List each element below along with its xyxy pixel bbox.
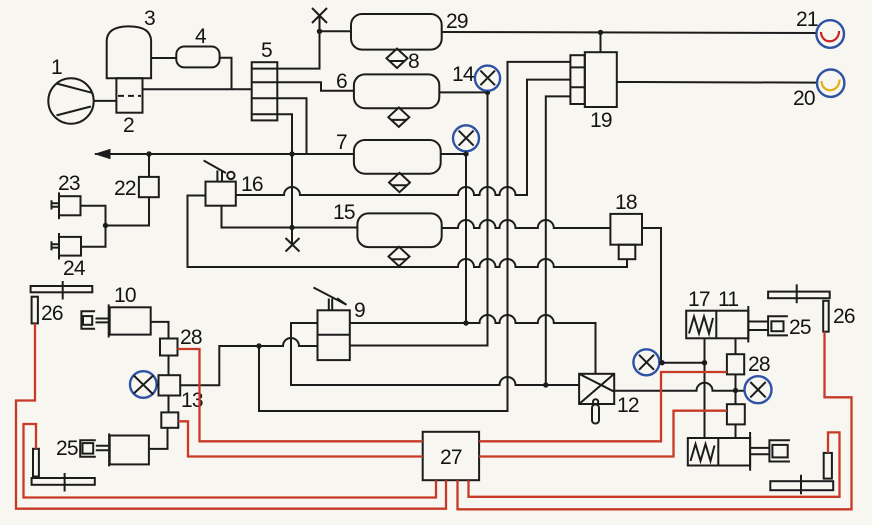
four-circuit protection valve 5 [252,62,278,120]
wire 28 left to valve 13 [168,356,170,376]
node chamber 17 feed [702,360,707,365]
brake pad right lower [824,453,832,479]
wheel cylinder front lower [80,440,96,457]
svg-text:27: 27 [440,446,462,469]
foot brake valve 9 [314,288,350,361]
wire lower 28 to lower chamber [735,424,737,438]
front brake chamber 10 [109,304,151,337]
node drain line on reservoir 15 wire [289,225,294,230]
svg-text:6: 6 [336,70,347,93]
wire reservoir 6 to test point 14 [439,91,487,93]
node circuit I [317,29,322,34]
svg-text:26: 26 [41,302,63,325]
closed drain port X [286,238,300,252]
wheel cylinder 25 right upper [768,316,788,335]
svg-text:1: 1 [51,56,62,79]
svg-text:3: 3 [144,7,155,30]
wire coupling 23 to node [81,206,106,247]
red pipe left upper pad to unit 27 port 2 [16,323,446,508]
svg-text:18: 18 [615,191,637,214]
svg-text:10: 10 [114,284,136,307]
wire block 18 right down to rear axle node [642,228,661,363]
wet line wire to reservoir 7 [95,153,354,155]
push rod front upper [96,319,109,323]
node under test point 14 [485,90,490,95]
node drain on wet line [289,151,294,156]
regeneration reservoir 4 [176,47,219,68]
push rod upper right [748,322,768,331]
wire port III of 19 down to valve 12 line [546,96,571,385]
drain valve 8 under reservoir 29 [387,49,408,68]
svg-text:2: 2 [123,114,134,137]
wire valve 28 to node [735,374,737,404]
solenoid valve 13 [159,375,181,395]
svg-text:28: 28 [180,326,202,349]
closed test port X above [312,8,327,23]
reservoir 6 [354,74,439,108]
push rod front lower [96,446,109,450]
wire front lower chamber to lower valve [149,428,168,449]
push rod lower right [750,448,769,454]
wire reservoir 29 to front indicator 21 [442,32,817,33]
node under reservoir 7 test point [463,151,468,156]
wire reservoir 4 to protection valve 5 [220,58,232,90]
wire dryer to regeneration reservoir 4 [151,57,176,59]
wheel cylinder front upper [81,311,95,329]
wire compressor to dryer [94,100,117,102]
drain valve under reservoir 7 [389,173,410,192]
reservoir 15 [357,213,441,247]
coupling head 24 [52,233,82,260]
svg-text:16: 16 [241,173,263,196]
wire reservoir 15 to block 18 with hops [442,220,611,228]
wire port I of 19 down and to valve 9 branch [259,62,570,411]
dryer lower body 2 [116,78,142,113]
svg-text:7: 7 [336,131,347,154]
test point at valve 13 [130,371,159,398]
brake pad 26 left upper [32,297,38,324]
wire valve 5 circuit IV drain line [277,114,292,244]
svg-text:15: 15 [333,201,355,224]
front brake chamber 25 lower [109,433,149,466]
relay valve 12 [579,374,614,424]
svg-text:22: 22 [114,177,136,200]
wire valve 16 bottom to reservoir 15 [222,206,358,228]
lower valve front axle [161,412,178,427]
drain valve under reservoir 6 [388,108,409,127]
wire node down into block 19 [600,32,602,52]
brake shoe bar left upper [31,281,93,300]
line valve 28 right lower [727,404,745,424]
wire valve 5 circuit I up to reservoir 29 [277,16,319,69]
wire chamber 10 to valve 28 left [151,322,169,339]
svg-text:20: 20 [793,87,815,110]
wire test point to chamber 17 feed [659,362,704,364]
line valve 28 right upper [727,354,744,374]
red pipe unit 27 port 4 to right lower pad [469,432,840,496]
brake signal valve 22 [139,177,159,197]
reservoir 29 [351,14,442,50]
relay block 19 ports [570,55,584,104]
wire chamber 11 down to valve 28 [735,338,737,354]
svg-text:12: 12 [617,394,639,417]
test point right of 28 [745,376,772,403]
wire node down to lower spring chamber [704,363,706,438]
node wet line to valve 22 [146,151,151,156]
wire reservoir 7 test node down to foot valve upper circuit [465,154,467,323]
line valve 28 left [160,339,178,356]
reservoir 7 [354,140,441,174]
node on valve 13 line [256,343,261,348]
wire foot valve 9 upper left wrap to relay valve 12 left with hop [291,323,579,385]
svg-text:5: 5 [261,39,272,62]
relay block 19 body [585,52,617,107]
wire valve 5 circuit II to reservoir 6 [277,82,354,91]
brake shoe bar right lower [770,475,833,495]
wire valve 13 to lower valve [168,396,170,413]
svg-text:19: 19 [590,109,612,132]
coupling head 23 [52,192,81,219]
wire node up to spring chamber 17 [704,338,706,362]
brake pad 26 right upper [823,301,829,332]
wire valve 16 right to relay block 19 port II with hops [236,80,571,195]
red pipe left lower pad to unit 27 port 1 [24,424,437,498]
wire valve 12 output to test point with hop [614,383,744,391]
compressor 1 [48,78,93,123]
wire wet line down to valve 22 [148,154,150,177]
svg-text:25: 25 [56,437,78,460]
wire reservoir 7 to test point [441,153,466,155]
svg-text:21: 21 [796,8,818,31]
drain valve under reservoir 15 [389,247,410,266]
spring brake chamber 17 and 11 [686,306,748,343]
node couplings [103,223,108,228]
brake indicator 20 [817,70,844,97]
brake indicator 21 [816,20,844,48]
svg-text:24: 24 [63,257,86,280]
red pipe front lower valve to unit 27 to lower 28 right [178,411,727,457]
wire node to reservoir 29 [320,30,352,32]
wire valve 13 to foot valve 9 lower left with hop [180,338,317,385]
wire foot valve 9 upper output to relay valve 12 top with hops [350,315,596,374]
wire dryer 2 to protection valve 5 [143,88,252,90]
svg-text:8: 8 [408,50,419,73]
test point 14 [475,66,500,93]
wire test point 14 down to foot valve lower circuit [350,92,488,345]
node rear supply tee [659,360,664,365]
wheel cylinder lower right [769,440,790,461]
node on foot valve upper output [463,320,468,325]
brake pad left lower [33,449,39,477]
air dryer dome 3 [107,26,151,78]
brake shoe bar left lower [32,473,95,492]
wire valve 22 to couplings node [106,197,150,225]
node port III joins valve 12 line [543,382,548,387]
test point at valve 12 [633,349,659,375]
red pipe unit 27 port 3 to right upper pad [458,332,852,510]
svg-text:29: 29 [446,10,468,33]
red pipe 28 left to unit 27 to 28 right upper [178,349,727,441]
hand brake valve 16 [204,161,236,206]
exhaust arrow head [94,149,111,160]
svg-text:9: 9 [354,299,365,322]
electronic unit 27 [423,432,479,480]
svg-text:28: 28 [748,353,770,376]
svg-text:23: 23 [58,172,80,195]
wire valve 5 circuit III down to wet line [277,98,306,154]
wire valve 16 left to block 18 bottom with hops [188,196,628,268]
svg-text:26: 26 [833,305,855,328]
lower spring brake chamber [688,432,750,471]
wire block 19 to indicator 20 [617,81,817,84]
brake shoe bar right upper [768,284,830,303]
node feed to block 19 top [598,30,603,35]
svg-text:17: 17 [688,288,710,311]
svg-text:25: 25 [789,316,811,339]
control block 18 [610,214,642,259]
test point at reservoir 7 [453,125,479,154]
svg-text:11: 11 [718,288,738,311]
svg-text:4: 4 [195,25,207,48]
svg-text:14: 14 [452,63,475,86]
node spring brake tee [733,388,738,393]
